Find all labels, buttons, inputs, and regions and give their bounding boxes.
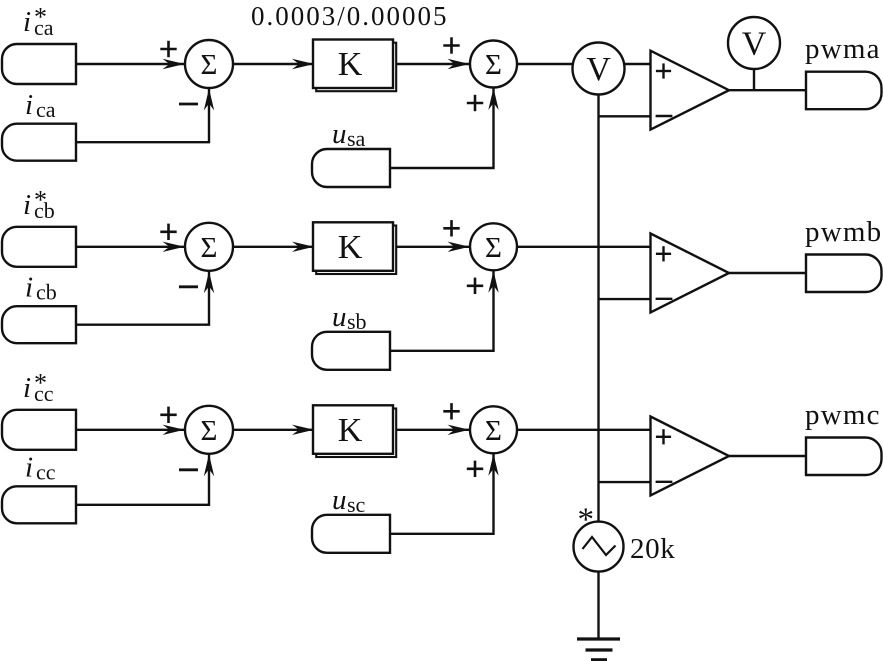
wire i*_ca to sum Sa1 [76, 59, 185, 69]
wire u_sa to sum Sa2 [390, 88, 499, 169]
wire u_sc to sum Sc2 [390, 453, 499, 534]
svg-text:sa: sa [347, 126, 366, 151]
input port u_sa [312, 149, 390, 187]
wire sum Sa1 to gain Ka [233, 59, 314, 69]
plus sign at sum Sb2 input [443, 220, 459, 236]
carrier source asterisk label [578, 502, 595, 538]
svg-text:ca: ca [34, 15, 54, 40]
wire carrier bus to comparator Uc minus input [599, 481, 652, 483]
node pwmc label [805, 399, 881, 431]
input port i*_cc [2, 410, 76, 450]
node u_sa label [332, 118, 366, 151]
comparator Ub [651, 234, 730, 313]
summing junction Sb1 [185, 223, 233, 271]
svg-text:i: i [25, 272, 33, 304]
svg-text:V: V [742, 26, 767, 63]
svg-text:sb: sb [347, 309, 367, 334]
plus sign at sum Sc1 input [160, 407, 176, 423]
svg-text:cb: cb [36, 280, 57, 305]
svg-text:Σ: Σ [201, 49, 218, 81]
wire i*_cc to sum Sc1 [76, 425, 185, 435]
wire comparator Uc to output pwmc [728, 455, 807, 457]
wire comparator Ua to output pwma [728, 89, 807, 91]
wire comparator Ub to output pwmb [728, 272, 807, 274]
input port i*_cb [2, 227, 76, 267]
plus sign at sum Sa2 lower input [467, 95, 483, 111]
svg-text:u: u [332, 301, 347, 333]
output port pwmc [806, 438, 882, 476]
minus sign at sum Sb1 input [179, 285, 198, 288]
svg-text:i: i [23, 189, 31, 221]
svg-text:u: u [332, 484, 347, 516]
minus sign at sum Sa1 input [179, 103, 198, 106]
summing junction Sa2 [470, 41, 517, 88]
wire carrier source to ground [597, 572, 599, 639]
input port i_cc [2, 486, 76, 523]
node u_sb label [332, 301, 367, 334]
wire sum Sb2 to comparator Ub plus input [517, 246, 652, 248]
svg-text:K: K [338, 412, 363, 449]
node i*_ca label [23, 3, 54, 41]
summing junction Sb2 [470, 223, 517, 270]
wire carrier bus to comparator Ub minus input [599, 298, 652, 300]
summing junction Sa1 [185, 40, 233, 88]
plus sign at sum Sc2 lower input [467, 461, 483, 477]
carrier frequency label 20k [630, 533, 675, 565]
wire i_cc to sum Sc1 minus input [76, 454, 214, 505]
svg-text:20k: 20k [630, 533, 675, 565]
carrier source VS1 20k triangle-wave generator [574, 522, 624, 572]
gain block Kb [313, 222, 396, 274]
plus sign at sum Sb1 input [160, 224, 176, 240]
output port pwmb [806, 255, 882, 293]
node i*_cb label [23, 185, 55, 223]
minus sign at sum Sc1 input [179, 468, 198, 471]
plus sign at sum Sc2 input [443, 403, 459, 419]
svg-text:Σ: Σ [485, 49, 502, 81]
input port u_sc [312, 515, 390, 553]
node u_sc label [332, 484, 366, 517]
svg-text:V: V [586, 51, 611, 88]
plus sign at sum Sa1 input [160, 41, 176, 57]
wire gain Ka to sum Sa2 [397, 59, 470, 69]
ground symbol [577, 639, 620, 660]
svg-text:sc: sc [347, 492, 366, 517]
wire carrier bus vertical [597, 69, 599, 548]
node i_ca label [25, 89, 56, 122]
plus sign at sum Sb2 lower input [467, 278, 483, 294]
summing junction Sc2 [470, 406, 517, 453]
gain block Ka [313, 40, 396, 92]
svg-text:pwmc: pwmc [805, 399, 881, 431]
wire carrier bus to comparator Ua minus input [599, 115, 652, 117]
svg-text:Σ: Σ [485, 232, 502, 264]
wire i_cb to sum Sb1 minus input [76, 271, 214, 325]
node i*_cc label [23, 368, 54, 406]
svg-text:cb: cb [34, 198, 55, 223]
svg-text:Σ: Σ [201, 232, 218, 264]
svg-text:K: K [338, 46, 363, 83]
svg-text:cc: cc [36, 460, 56, 485]
voltmeter V1 on modulation wire [573, 43, 625, 95]
wire sum Sa2 to comparator Ua plus input [517, 63, 652, 65]
input port u_sb [312, 332, 390, 370]
svg-text:pwmb: pwmb [805, 216, 882, 248]
wire i*_cb to sum Sb1 [76, 242, 185, 252]
svg-text:u: u [332, 118, 347, 150]
gain value label 0.0003/0.00005 [251, 1, 449, 31]
input port i_cb [2, 306, 76, 343]
svg-text:i: i [23, 6, 31, 38]
svg-text:K: K [338, 229, 363, 266]
plus sign at sum Sa2 input [443, 37, 459, 53]
svg-text:0.0003/0.00005: 0.0003/0.00005 [251, 1, 449, 31]
wire sum Sc1 to gain Kc [233, 425, 314, 435]
wire i_ca to sum Sa1 minus input [76, 88, 214, 142]
node i_cb label [25, 272, 57, 305]
svg-text:Σ: Σ [485, 415, 502, 447]
wire gain Kb to sum Sb2 [397, 242, 470, 252]
comparator Ua [651, 51, 730, 130]
wire sum Sb1 to gain Kb [233, 242, 314, 252]
svg-text:ca: ca [36, 97, 56, 122]
wire gain Kc to sum Sc2 [397, 425, 470, 435]
node pwma label [805, 33, 881, 65]
node pwmb label [805, 216, 882, 248]
svg-text:Σ: Σ [201, 415, 218, 447]
summing junction Sc1 [185, 406, 233, 454]
gain block Kc [313, 405, 396, 457]
node i_cc label [25, 452, 56, 485]
wire u_sb to sum Sb2 [390, 270, 499, 351]
svg-text:i: i [25, 89, 33, 121]
input port i*_ca [2, 44, 76, 84]
voltmeter V2 on pwma output [728, 17, 780, 90]
svg-text:pwma: pwma [805, 33, 881, 65]
comparator Uc [651, 417, 730, 496]
input port i_ca [2, 124, 76, 161]
wire sum Sc2 to comparator Uc plus input [517, 429, 652, 431]
output port pwma [806, 72, 882, 110]
svg-text:i: i [25, 452, 33, 484]
svg-text:cc: cc [34, 381, 54, 406]
svg-text:i: i [23, 372, 31, 404]
